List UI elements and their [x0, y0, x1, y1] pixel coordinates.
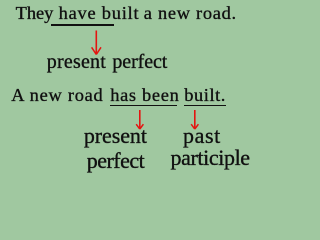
arrow 1 (long red down arrow)	[89, 29, 105, 56]
label "past" (bottom right, line 1)	[183, 125, 221, 147]
underline under "built."	[184, 105, 225, 107]
underline under "has been"	[110, 105, 178, 107]
sentence 2 word group "A new road"	[11, 86, 103, 104]
sentence 1 word group "a new road."	[144, 4, 237, 22]
sentence 2 word group "built."	[184, 86, 226, 104]
underline under "have built"	[51, 24, 114, 25]
label "participle" (bottom right, line 2)	[171, 147, 250, 169]
label "perfect" (bottom left, line 2)	[87, 150, 145, 172]
sentence 1 word group "have built"	[59, 4, 140, 22]
arrow 2 (short red down arrow, under "has been")	[133, 108, 148, 130]
sentence 2 word group "has been"	[110, 86, 179, 104]
arrow 3 (short red down arrow, under "built")	[188, 108, 203, 130]
label "perfect" (middle)	[112, 52, 167, 72]
sentence 1 word group "They"	[16, 4, 54, 22]
label "present" (middle)	[47, 52, 106, 72]
label "present" (bottom left, line 1)	[84, 125, 147, 147]
